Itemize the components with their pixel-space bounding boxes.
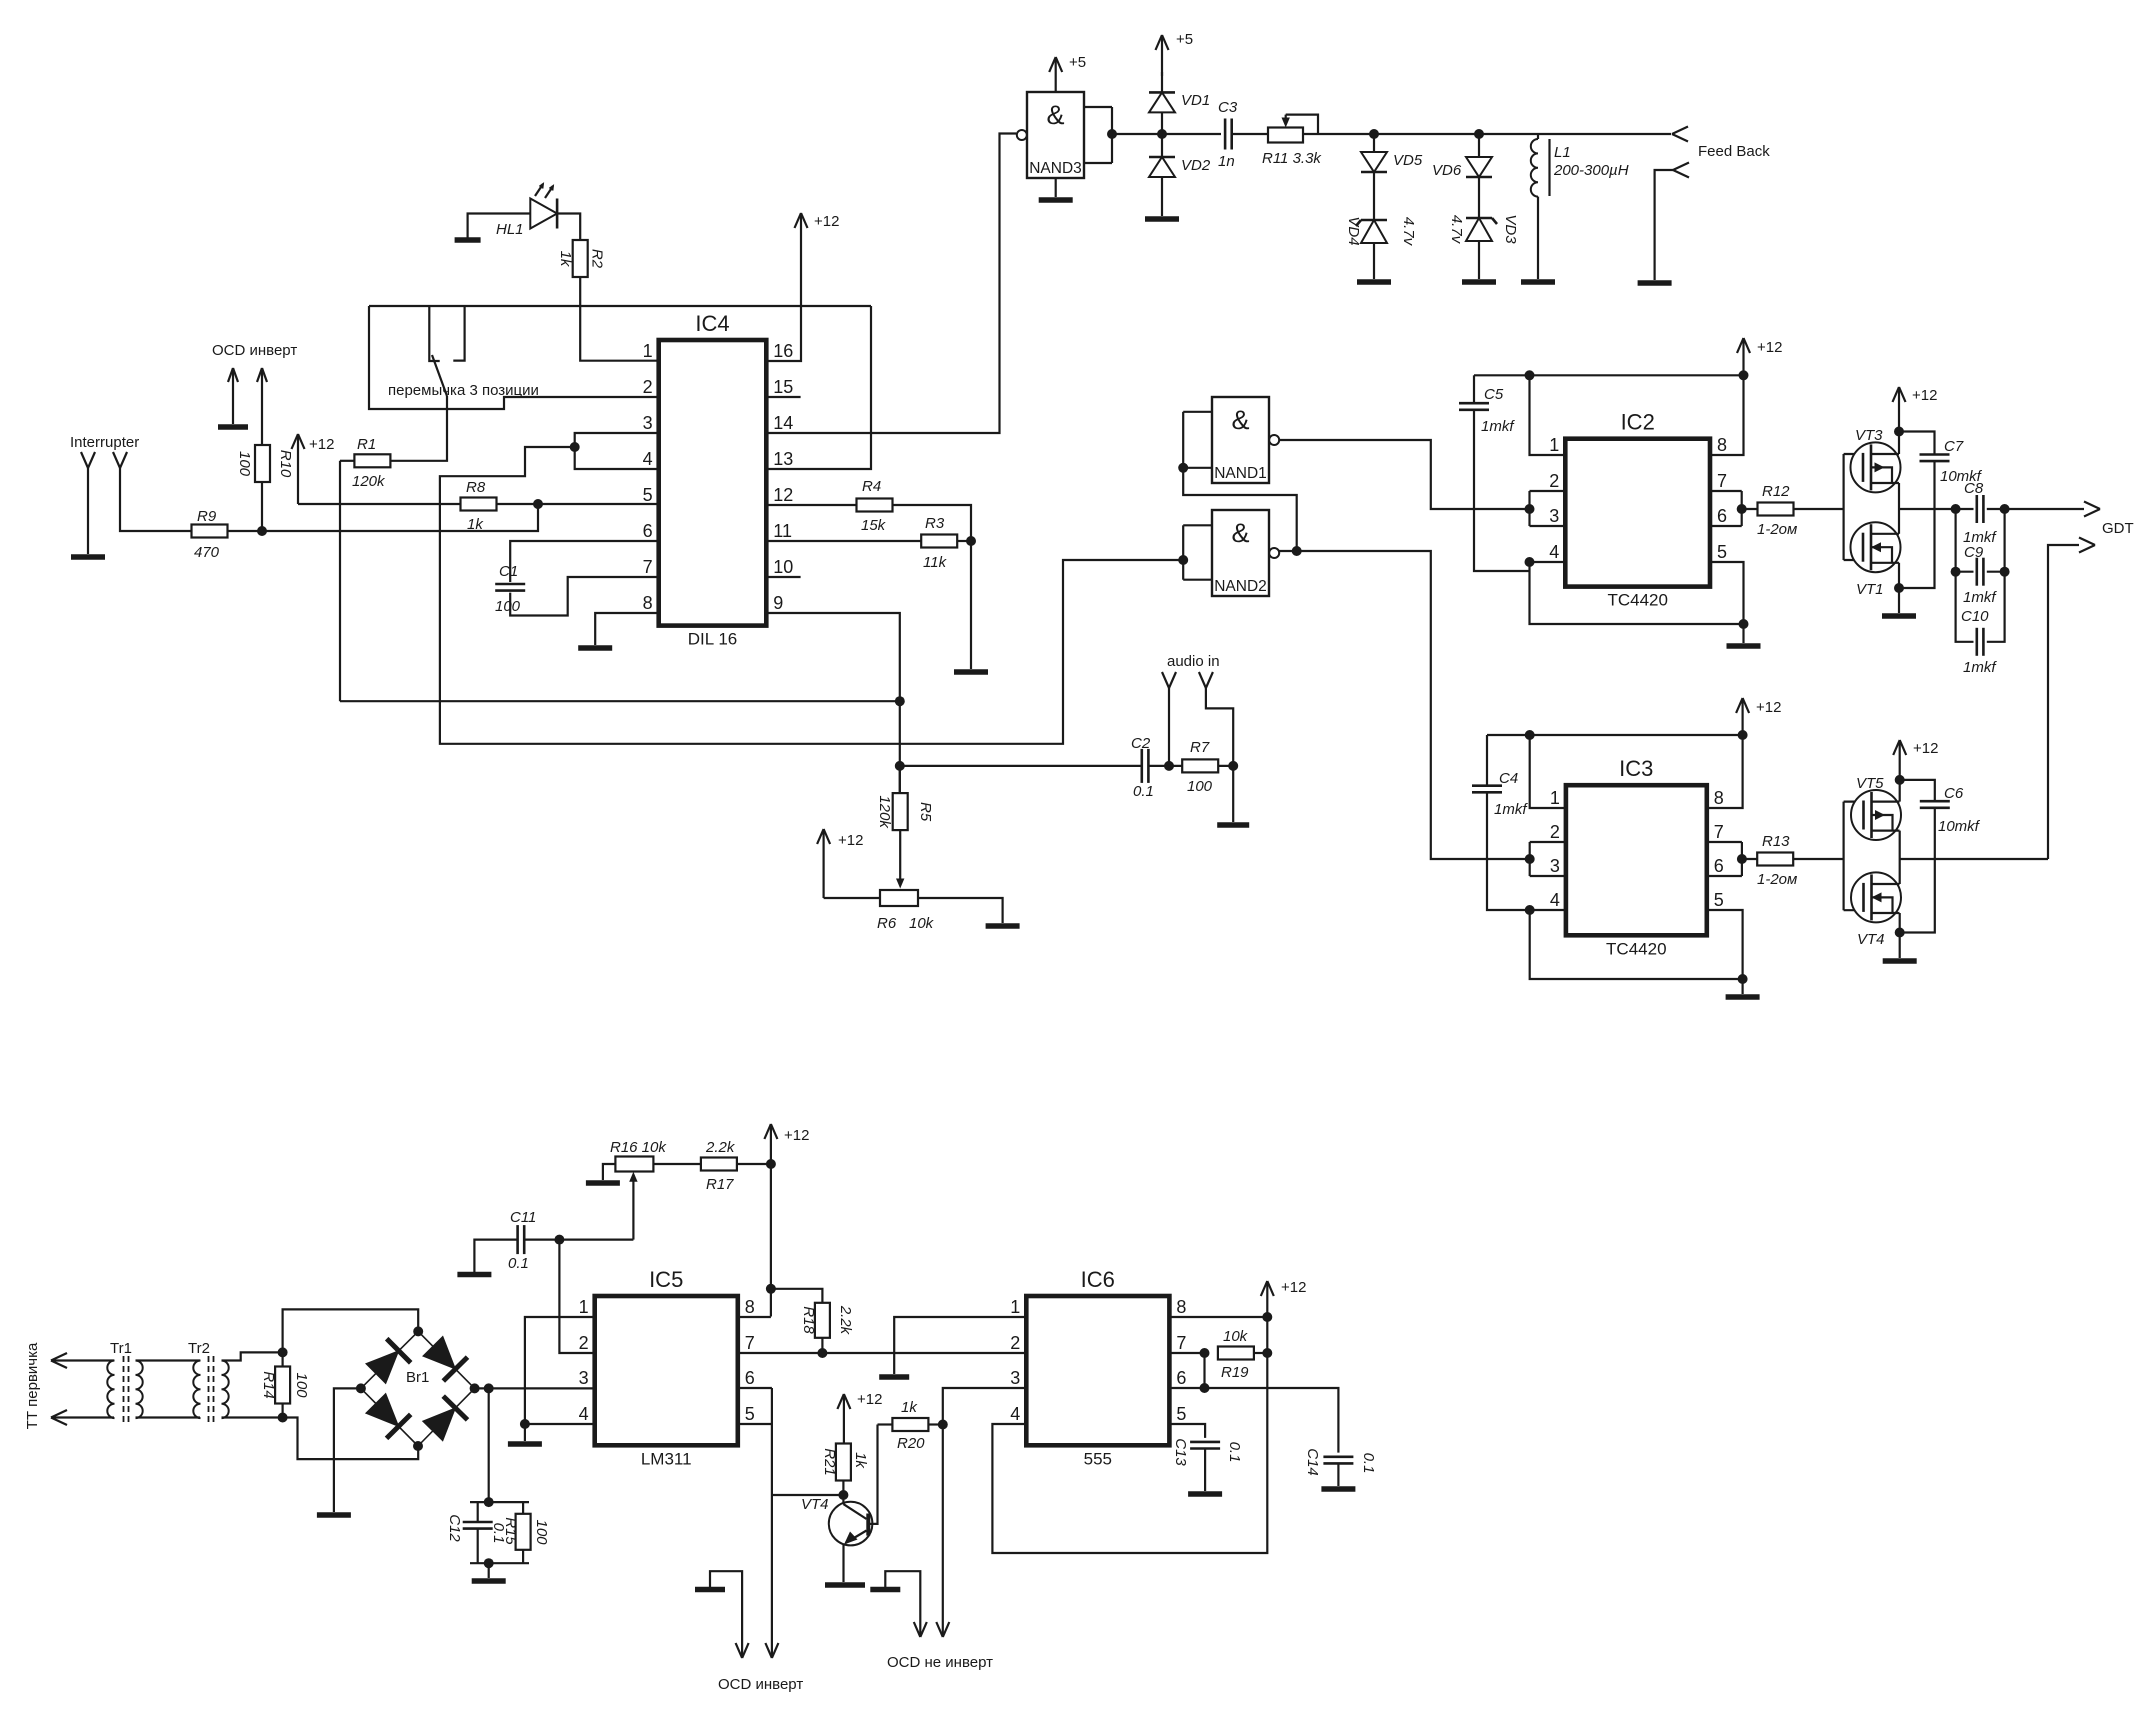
ground	[1882, 613, 1916, 619]
svg-text:5: 5	[1717, 542, 1727, 562]
svg-text:HL1: HL1	[496, 221, 524, 238]
terminal OCD не инверт sig	[936, 1622, 949, 1637]
wire	[453, 306, 464, 361]
node	[1738, 730, 1748, 740]
node junction R7 right	[1228, 761, 1238, 771]
ground	[1039, 197, 1073, 203]
capacitor C8	[1963, 480, 1997, 546]
svg-text:0.1: 0.1	[508, 1255, 529, 1272]
wire bus output	[1899, 831, 1901, 884]
capacitor C6	[1900, 780, 1981, 933]
wire	[1161, 112, 1163, 157]
wire	[1794, 508, 1844, 510]
wire pin14	[766, 134, 1016, 434]
svg-text:R6: R6	[877, 915, 897, 932]
svg-text:Tr1: Tr1	[110, 1340, 132, 1357]
wire	[1478, 177, 1480, 218]
svg-text:IC4: IC4	[695, 311, 729, 336]
wire	[1987, 571, 2005, 573]
svg-text:11: 11	[773, 521, 792, 541]
svg-text:2.2k: 2.2k	[705, 1139, 736, 1156]
capacitor C7	[1899, 432, 1983, 589]
svg-text:IC6: IC6	[1081, 1267, 1115, 1292]
driver IC3 (TC4420)	[1550, 756, 1724, 958]
node	[520, 1419, 530, 1429]
wire	[772, 1494, 844, 1496]
svg-text:VT4: VT4	[1857, 931, 1885, 948]
svg-text:8: 8	[1714, 788, 1724, 808]
svg-text:C5: C5	[1484, 386, 1504, 403]
wire pin6	[510, 541, 659, 582]
svg-text:15: 15	[773, 377, 793, 397]
node IC3 input	[1525, 854, 1535, 864]
svg-text:100: 100	[533, 1519, 550, 1545]
wire	[1218, 766, 1233, 822]
svg-text:VT5: VT5	[1856, 775, 1884, 792]
capacitor C14	[1304, 1448, 1377, 1476]
svg-text:NAND3: NAND3	[1029, 160, 1082, 177]
wire	[334, 1388, 361, 1512]
svg-text:1k: 1k	[467, 516, 484, 533]
wire	[1205, 1388, 1339, 1453]
svg-text:1: 1	[643, 341, 653, 361]
svg-text:VD2: VD2	[1181, 157, 1211, 174]
wire VT4 source	[1899, 913, 1901, 933]
svg-text:1k: 1k	[901, 1399, 918, 1416]
svg-text:10k: 10k	[909, 915, 935, 932]
svg-text:C11: C11	[510, 1209, 536, 1226]
capacitor C12	[446, 1502, 507, 1543]
ground	[1727, 643, 1761, 649]
svg-text:VD3: VD3	[1502, 214, 1519, 244]
node junction audio1	[1164, 761, 1174, 771]
diode VD5	[1361, 152, 1423, 172]
wire	[603, 1164, 616, 1180]
wire	[1844, 453, 1863, 455]
wire NAND1 output	[1279, 440, 1529, 509]
svg-text:C6: C6	[1944, 785, 1964, 802]
svg-text:2: 2	[643, 377, 653, 397]
resistor R13	[1757, 833, 1797, 888]
node	[2000, 567, 2010, 577]
svg-text:R18: R18	[800, 1306, 817, 1334]
svg-text:2: 2	[579, 1333, 589, 1353]
svg-text:DIL 16: DIL 16	[688, 630, 737, 649]
wire	[710, 1571, 742, 1658]
resistor R7	[1182, 739, 1218, 795]
ground	[455, 237, 481, 243]
wire	[900, 765, 1142, 767]
svg-text:120k: 120k	[876, 795, 893, 829]
terminal Feed Back 2	[1673, 163, 1689, 178]
node	[484, 1558, 494, 1568]
wire pin1 IC5	[525, 1317, 595, 1424]
node junction VD1/VD2	[1157, 129, 1167, 139]
svg-text:6: 6	[1176, 1368, 1186, 1388]
svg-text:Br1: Br1	[406, 1369, 429, 1386]
wire	[524, 1424, 526, 1441]
text label OCD инверт	[212, 342, 297, 359]
wire +12 rail IC3	[1487, 734, 1743, 736]
svg-text:&: &	[1231, 405, 1249, 435]
inductor L1 200-300uH	[1531, 134, 1629, 197]
wire	[632, 1178, 634, 1240]
wire pins2-3 IC2	[1530, 491, 1566, 526]
ground	[1462, 279, 1496, 285]
node	[278, 1413, 288, 1423]
svg-text:6: 6	[1714, 856, 1724, 876]
svg-text:4.7v: 4.7v	[1400, 217, 1417, 247]
diode bridge Br1 lower-left	[361, 1388, 418, 1446]
wire	[488, 1563, 490, 1578]
wire	[340, 460, 354, 462]
wire	[369, 306, 659, 409]
node	[1262, 1348, 1272, 1358]
capacitor C10	[1961, 608, 1997, 676]
wire	[283, 1309, 419, 1352]
svg-text:8: 8	[745, 1297, 755, 1317]
svg-text:1k: 1k	[852, 1452, 869, 1469]
wire	[1537, 197, 1539, 279]
wire	[228, 530, 263, 532]
power +12	[1261, 1279, 1307, 1317]
wire	[1161, 177, 1163, 216]
svg-text:C1: C1	[499, 563, 518, 580]
wire pin4 IC6	[992, 1318, 1267, 1553]
wire	[474, 1240, 517, 1275]
power +12	[837, 1391, 882, 1445]
wire pin8	[595, 613, 659, 645]
svg-text:R8: R8	[466, 479, 486, 496]
capacitor C3	[1218, 99, 1238, 170]
wire bus output	[1898, 483, 1900, 534]
wire	[390, 396, 447, 461]
svg-text:VT3: VT3	[1855, 427, 1883, 444]
svg-text:+12: +12	[1912, 387, 1937, 404]
svg-text:10k: 10k	[1223, 1328, 1249, 1345]
svg-text:R14: R14	[260, 1371, 277, 1399]
wire	[842, 1481, 844, 1496]
wire	[298, 503, 461, 505]
svg-text:R7: R7	[1190, 739, 1210, 756]
node IC3 output	[1737, 854, 1747, 864]
wire	[1478, 134, 1480, 157]
switch перемычка diagonal	[432, 355, 447, 396]
svg-text:100: 100	[293, 1372, 310, 1398]
zener VD4 4.7v	[1345, 216, 1417, 246]
capacitor C11	[508, 1209, 536, 1272]
svg-text:1: 1	[1549, 435, 1559, 455]
wire	[1987, 509, 2005, 642]
svg-text:6: 6	[1717, 506, 1727, 526]
wire	[1373, 243, 1375, 279]
wire	[497, 503, 659, 505]
capacitor C5	[1459, 375, 1515, 435]
svg-text:7: 7	[1717, 471, 1727, 491]
text label ТТ первичка	[24, 1342, 41, 1429]
svg-text:5: 5	[1714, 890, 1724, 910]
text label OCD не инверт	[887, 1654, 993, 1671]
svg-text:L1: L1	[1554, 144, 1571, 161]
node	[1895, 928, 1905, 938]
wire	[1161, 72, 1163, 92]
node	[1525, 730, 1535, 740]
svg-text:0.1: 0.1	[1360, 1453, 1377, 1474]
node	[817, 1348, 827, 1358]
wire gate bracket	[1842, 802, 1844, 911]
wire	[87, 474, 89, 554]
text label audio in	[1167, 653, 1220, 670]
wire pin12	[766, 504, 856, 506]
svg-text:3: 3	[1550, 856, 1560, 876]
driver IC2 (TC4420)	[1549, 410, 1727, 610]
wire pin4 IC3	[1530, 910, 1743, 979]
LED HL1	[496, 184, 557, 238]
svg-text:470: 470	[194, 544, 220, 561]
wire pin3 IC6	[943, 1388, 1027, 1425]
svg-text:9: 9	[773, 593, 783, 613]
svg-text:11k: 11k	[923, 554, 948, 571]
wire	[928, 1423, 942, 1425]
node	[1525, 370, 1535, 380]
wire	[510, 577, 659, 616]
wire NAND1 inputs	[1183, 412, 1212, 468]
wire feedback rail	[1303, 133, 1671, 135]
svg-text:C4: C4	[1499, 770, 1518, 787]
svg-text:13: 13	[773, 449, 793, 469]
svg-text:IC2: IC2	[1621, 410, 1655, 435]
svg-text:1: 1	[1010, 1297, 1020, 1317]
svg-text:1n: 1n	[1218, 153, 1235, 170]
power +12	[1893, 740, 1938, 780]
svg-text:C12: C12	[446, 1514, 463, 1542]
resistor R12	[1757, 483, 1797, 538]
svg-text:+12: +12	[1281, 1279, 1306, 1296]
wire	[522, 1550, 524, 1563]
svg-text:5: 5	[745, 1404, 755, 1424]
svg-text:C3: C3	[1218, 99, 1238, 116]
svg-text:VT4: VT4	[801, 1496, 829, 1513]
ground	[586, 1180, 620, 1186]
resistor R8	[461, 479, 497, 533]
svg-text:IC3: IC3	[1619, 756, 1653, 781]
wire	[136, 1416, 201, 1418]
node	[278, 1347, 288, 1357]
svg-text:4.7v: 4.7v	[1448, 215, 1465, 245]
node	[1738, 974, 1748, 984]
svg-text:OCD не инверт: OCD не инверт	[887, 1654, 993, 1671]
wire pin5 IC6	[1169, 1424, 1205, 1438]
svg-text:OCD инверт: OCD инверт	[718, 1676, 803, 1693]
node	[1951, 504, 1961, 514]
svg-text:C10: C10	[1961, 608, 1989, 625]
terminal ТТ 1	[51, 1353, 67, 1368]
power +12	[1736, 698, 1781, 735]
wire	[1844, 800, 1864, 802]
svg-text:+12: +12	[1757, 339, 1782, 356]
wire output rail 2	[1900, 858, 2048, 860]
svg-text:Tr2: Tr2	[188, 1340, 210, 1357]
svg-text:7: 7	[1714, 822, 1724, 842]
svg-text:R17: R17	[706, 1176, 734, 1193]
wire pin1 IC3	[1530, 735, 1566, 808]
svg-text:0.1: 0.1	[1226, 1442, 1243, 1463]
text label GDT	[2102, 520, 2134, 537]
svg-text:VD1: VD1	[1181, 92, 1210, 109]
diode bridge Br1 upper-left	[361, 1331, 418, 1388]
svg-text:R1: R1	[357, 436, 376, 453]
diode bridge Br1 lower-right	[418, 1388, 475, 1446]
svg-text:8: 8	[1717, 435, 1727, 455]
svg-text:&: &	[1046, 100, 1064, 130]
wire	[468, 214, 531, 241]
svg-text:1: 1	[579, 1297, 589, 1317]
wire +12 rail IC2	[1474, 374, 1744, 376]
svg-text:R9: R9	[197, 508, 217, 525]
wire	[1148, 765, 1182, 767]
wire	[1204, 1449, 1206, 1492]
power +5	[1156, 31, 1194, 76]
wire	[340, 700, 900, 702]
wire	[339, 461, 341, 701]
terminal GDT 2	[2079, 538, 2095, 553]
svg-text:R3: R3	[925, 515, 945, 532]
terminal Feed Back 1	[1672, 127, 1688, 142]
node NAND2 inputs	[1178, 555, 1188, 565]
diode VD1	[1149, 92, 1210, 112]
wire	[899, 830, 901, 882]
wire	[1373, 172, 1375, 220]
svg-text:R12: R12	[1762, 483, 1790, 500]
svg-text:5: 5	[643, 485, 653, 505]
svg-text:1mkf: 1mkf	[1963, 659, 1997, 676]
wire	[771, 1424, 773, 1658]
node junction pin9/R1	[895, 696, 905, 706]
svg-text:3: 3	[643, 413, 653, 433]
ground	[695, 1587, 725, 1593]
wire	[885, 1571, 920, 1637]
diode VD6	[1432, 157, 1492, 179]
text label Interrupter	[70, 434, 139, 451]
svg-text:5: 5	[1176, 1404, 1186, 1424]
svg-text:VD6: VD6	[1432, 162, 1462, 179]
wire pin5 IC3	[1707, 910, 1743, 979]
terminal OCD не инверт gnd	[914, 1622, 927, 1637]
svg-text:C2: C2	[1131, 735, 1151, 752]
svg-text:6: 6	[745, 1368, 755, 1388]
svg-text:120k: 120k	[352, 473, 386, 490]
potentiometer R16 10k	[610, 1139, 667, 1182]
ground	[1217, 822, 1249, 828]
node	[1951, 567, 1961, 577]
wire pin4 IC5	[525, 1423, 595, 1425]
svg-text:+12: +12	[784, 1127, 809, 1144]
node	[1525, 557, 1535, 567]
wire	[1898, 588, 1900, 613]
wire	[1742, 508, 1758, 510]
svg-text:R11 3.3k: R11 3.3k	[1262, 150, 1322, 167]
svg-text:7: 7	[643, 557, 653, 577]
power +12	[817, 829, 863, 898]
terminal OCD инверт sig	[257, 368, 267, 445]
text label Br1	[406, 1369, 429, 1386]
resistor R17	[701, 1139, 737, 1193]
wire pin8 IC2	[1710, 375, 1744, 455]
svg-text:&: &	[1231, 518, 1249, 548]
node junction C2/R5	[895, 761, 905, 771]
terminal audio-1	[1162, 672, 1176, 766]
terminal OCD инверт gnd	[228, 368, 238, 424]
wire	[1183, 468, 1297, 551]
capacitor C2	[1131, 735, 1154, 800]
node bridge top	[413, 1326, 423, 1336]
zener VD3 4.7v	[1448, 214, 1519, 244]
wire gate bracket	[1842, 454, 1844, 560]
svg-text:4: 4	[1549, 542, 1559, 562]
wire output rail	[1899, 508, 1974, 510]
svg-text:8: 8	[1176, 1297, 1186, 1317]
wire pin15	[766, 396, 800, 398]
svg-text:ТТ первичка: ТТ первичка	[24, 1342, 41, 1429]
wire	[1232, 133, 1268, 135]
node	[1894, 427, 1904, 437]
wire	[1203, 1353, 1205, 1388]
svg-text:1: 1	[1550, 788, 1560, 808]
resistor R9	[192, 508, 228, 561]
terminal OCD инверт sig	[765, 1643, 778, 1658]
svg-text:2: 2	[1549, 471, 1559, 491]
wire NAND2 output	[1279, 551, 1530, 859]
wire pin7 IC6	[1169, 1352, 1204, 1354]
svg-text:7: 7	[745, 1333, 755, 1353]
svg-text:+12: +12	[857, 1391, 882, 1408]
wire	[51, 1359, 114, 1361]
svg-text:3: 3	[1549, 506, 1559, 526]
transistor VT3	[1851, 427, 1901, 492]
resistor R15	[502, 1502, 550, 1550]
wire NAND2 inputs	[1183, 525, 1212, 579]
ground	[1521, 279, 1555, 285]
svg-text:100: 100	[236, 451, 253, 477]
svg-text:+5: +5	[1176, 31, 1193, 48]
wire	[475, 1387, 595, 1389]
svg-text:4: 4	[1550, 890, 1560, 910]
wire pin10	[766, 576, 800, 578]
wire	[1655, 170, 1673, 280]
potentiometer R6 10k	[877, 879, 935, 933]
ground	[457, 1272, 491, 1278]
node junction VD6	[1474, 129, 1484, 139]
svg-text:+12: +12	[814, 213, 839, 230]
wire	[1742, 624, 1744, 643]
wire	[1844, 909, 1864, 911]
svg-text:1k: 1k	[557, 251, 574, 268]
svg-text:NAND1: NAND1	[1214, 465, 1267, 482]
resistor R14	[260, 1367, 310, 1404]
terminal audio-2	[1199, 672, 1233, 766]
svg-text:1-2ом: 1-2ом	[1757, 871, 1797, 888]
node	[484, 1383, 494, 1393]
svg-text:10: 10	[773, 557, 793, 577]
terminal Interrupter-2	[113, 452, 127, 474]
power +12	[764, 1124, 809, 1317]
svg-text:1-2ом: 1-2ом	[1757, 521, 1797, 538]
wire	[470, 1562, 529, 1564]
svg-text:audio in: audio in	[1167, 653, 1220, 670]
timer IC6 (555)	[1010, 1267, 1186, 1468]
wire pins2-3 IC3	[1530, 842, 1566, 876]
svg-text:R4: R4	[862, 478, 881, 495]
